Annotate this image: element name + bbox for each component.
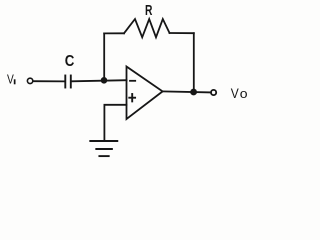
wire capacitor to inverting input — [72, 80, 127, 81]
resistor R — [124, 19, 170, 37]
wire op-amp output — [162, 91, 211, 92]
label Vi — [7, 72, 16, 87]
svg-text:V: V — [231, 85, 240, 101]
wire feedback right vertical — [193, 33, 195, 92]
node A (inverting input junction dot) — [101, 77, 108, 84]
label Vo — [231, 85, 248, 101]
capacitor C — [65, 76, 71, 88]
op-amp U1 — [127, 67, 163, 120]
pin label minus — [130, 80, 135, 82]
svg-text:C: C — [65, 53, 75, 70]
svg-text:o: o — [240, 86, 248, 101]
ground — [90, 141, 117, 156]
svg-text:V: V — [7, 72, 14, 87]
input terminal (open circle) — [27, 78, 32, 83]
wire input terminal to capacitor — [33, 80, 64, 82]
wire feedback left vertical — [103, 33, 105, 80]
output terminal (open circle) — [211, 90, 216, 95]
pin label plus — [129, 94, 135, 101]
wire feedback top left — [104, 32, 124, 34]
wire noninverting input to ground — [104, 105, 126, 141]
svg-text:R: R — [145, 3, 153, 19]
wire feedback top right — [170, 32, 194, 34]
node B (output junction dot) — [190, 89, 197, 96]
